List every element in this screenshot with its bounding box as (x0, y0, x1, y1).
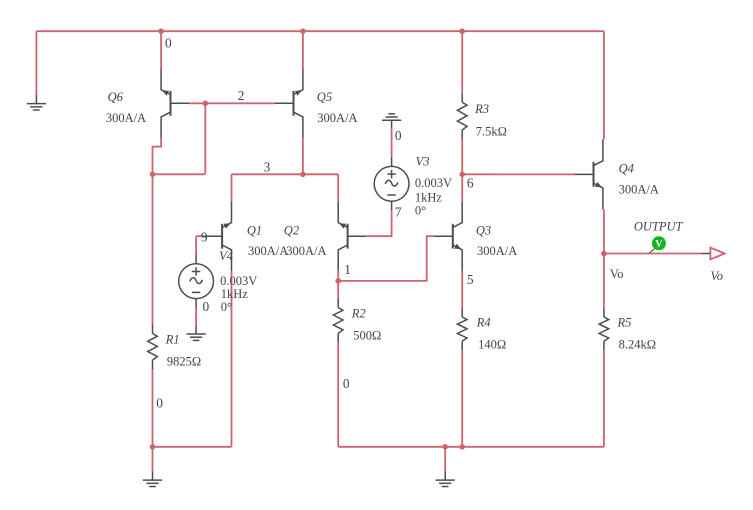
svg-text:Vo: Vo (711, 269, 724, 283)
wire R2 bottom (337, 343, 339, 447)
svg-text:Q2: Q2 (284, 224, 299, 238)
svg-text:OUTPUT: OUTPUT (634, 220, 684, 234)
wire Q6 collector jog (153, 138, 162, 174)
svg-text:300A/A: 300A/A (317, 111, 357, 125)
svg-text:7: 7 (395, 204, 402, 219)
junction bottom left (150, 444, 156, 450)
ground top left (27, 95, 46, 110)
resistor R4 (457, 308, 467, 351)
junction node 3 / Q5 collector (300, 172, 306, 178)
wire R5 bottom (603, 351, 605, 447)
wire node 3 rail (232, 173, 339, 175)
output pin stub (702, 253, 711, 255)
svg-text:R5: R5 (617, 315, 632, 329)
AC source V3 (374, 157, 409, 211)
wire Q6 emitter (160, 31, 162, 68)
resistor R1 (148, 325, 158, 370)
svg-text:R3: R3 (474, 102, 489, 116)
wire node 9 (196, 235, 204, 237)
svg-text:Q5: Q5 (317, 90, 332, 104)
svg-text:5: 5 (467, 272, 474, 287)
wire left drop to ground (35, 31, 37, 95)
svg-text:300A/A: 300A/A (619, 183, 659, 197)
ground V3 (382, 114, 401, 129)
wire R1 top (152, 174, 154, 324)
svg-text:0.003V: 0.003V (220, 274, 257, 288)
svg-text:300A/A: 300A/A (477, 244, 517, 258)
svg-text:6: 6 (467, 175, 474, 190)
wire R3 top (461, 31, 463, 93)
svg-text:0.003V: 0.003V (415, 176, 452, 190)
svg-text:9825Ω: 9825Ω (167, 354, 201, 368)
wire to bottom right ground (444, 447, 446, 472)
resistor R3 (457, 93, 467, 139)
wire output (604, 253, 702, 255)
ground bottom right (436, 472, 455, 487)
wire Q1 emitter (231, 174, 233, 201)
wire node 2 horizontal (153, 173, 206, 175)
wire node 1 to Q3 base (338, 236, 434, 281)
svg-text:R2: R2 (351, 307, 366, 321)
wire Q3 emitter to R4 (461, 271, 463, 308)
wire top rail node 0 (36, 30, 604, 32)
svg-text:9: 9 (201, 230, 208, 245)
junction top rail / R3 (459, 28, 465, 34)
svg-text:500Ω: 500Ω (353, 329, 381, 343)
junction node 6 (459, 172, 465, 178)
wire bottom right rail (338, 446, 604, 448)
svg-text:300A/A: 300A/A (248, 244, 288, 258)
svg-text:1kHz: 1kHz (415, 191, 443, 205)
wire Q5 collector (302, 138, 304, 174)
junction bottom rail / ground (442, 444, 448, 450)
wire R1 bottom (152, 369, 154, 446)
wire node 6 to Q4 base (462, 173, 575, 175)
ground V4 (187, 325, 206, 340)
svg-text:Vo: Vo (610, 267, 624, 281)
wire Q2 collector (337, 271, 339, 281)
transistor Q2 (338, 201, 366, 271)
wire R4 bottom (461, 351, 463, 447)
wire to bottom left ground (152, 447, 154, 472)
wire R3 bottom (461, 139, 463, 174)
wire Q4 emitter (603, 209, 605, 253)
junction top rail / Q6 (158, 28, 164, 34)
svg-text:V4: V4 (219, 249, 233, 263)
svg-text:R1: R1 (165, 332, 180, 346)
wire Q2 emitter (337, 174, 339, 201)
svg-text:Q6: Q6 (108, 90, 124, 104)
transistor Q1 (204, 201, 232, 271)
junction top rail / Q5 (300, 28, 306, 34)
svg-text:0°: 0° (415, 204, 426, 218)
ground bottom left (143, 472, 162, 487)
svg-text:0°: 0° (221, 300, 232, 314)
svg-text:Q3: Q3 (476, 224, 491, 238)
junction bottom rail / R4 (459, 444, 465, 450)
wire node 2 drop (204, 103, 206, 174)
wire V3 top (391, 129, 393, 157)
svg-text:140Ω: 140Ω (478, 338, 506, 352)
resistor R5 (599, 308, 609, 351)
probe OUTPUT (V) (652, 236, 666, 250)
junction node 2 (203, 101, 209, 107)
wire V4 top (195, 236, 197, 254)
junction output node (601, 251, 607, 257)
wire R2 top (337, 281, 339, 299)
wire V4 bottom (195, 308, 197, 325)
wire Q4 collector (603, 31, 605, 139)
AC source V4 (179, 254, 214, 308)
transistor Q3 (434, 201, 462, 271)
svg-text:0: 0 (156, 395, 163, 410)
junction Q6 collector / R1 (150, 172, 156, 178)
wire Q3 collector (461, 174, 463, 201)
svg-text:8.24kΩ: 8.24kΩ (619, 338, 656, 352)
probe leader line (649, 249, 654, 253)
svg-text:2: 2 (238, 88, 245, 103)
svg-text:0: 0 (203, 299, 210, 314)
svg-text:0: 0 (343, 376, 350, 391)
junction node 1 (335, 278, 341, 284)
svg-text:300A/A: 300A/A (286, 244, 326, 258)
svg-text:Q4: Q4 (619, 162, 634, 176)
svg-text:1: 1 (344, 262, 351, 277)
wire bottom left rail (153, 446, 232, 448)
svg-text:Q1: Q1 (247, 224, 262, 238)
svg-text:0: 0 (395, 128, 402, 143)
transistor Q4 (575, 139, 603, 209)
wire Q1 collector (231, 271, 233, 447)
wire node 2 (189, 102, 275, 104)
svg-text:R4: R4 (476, 315, 491, 329)
svg-text:V: V (655, 239, 663, 250)
output port arrow (710, 248, 724, 260)
transistor Q5 (275, 68, 303, 138)
wire Q5 emitter (302, 31, 304, 68)
wire R5 top (603, 254, 605, 309)
resistor R2 (333, 299, 343, 343)
svg-text:V3: V3 (416, 155, 430, 169)
wire node 7 (366, 211, 392, 237)
svg-text:3: 3 (264, 160, 271, 175)
transistor Q6 (161, 68, 189, 138)
svg-text:0: 0 (165, 36, 172, 51)
svg-text:300A/A: 300A/A (106, 111, 146, 125)
svg-text:7.5kΩ: 7.5kΩ (476, 124, 507, 138)
